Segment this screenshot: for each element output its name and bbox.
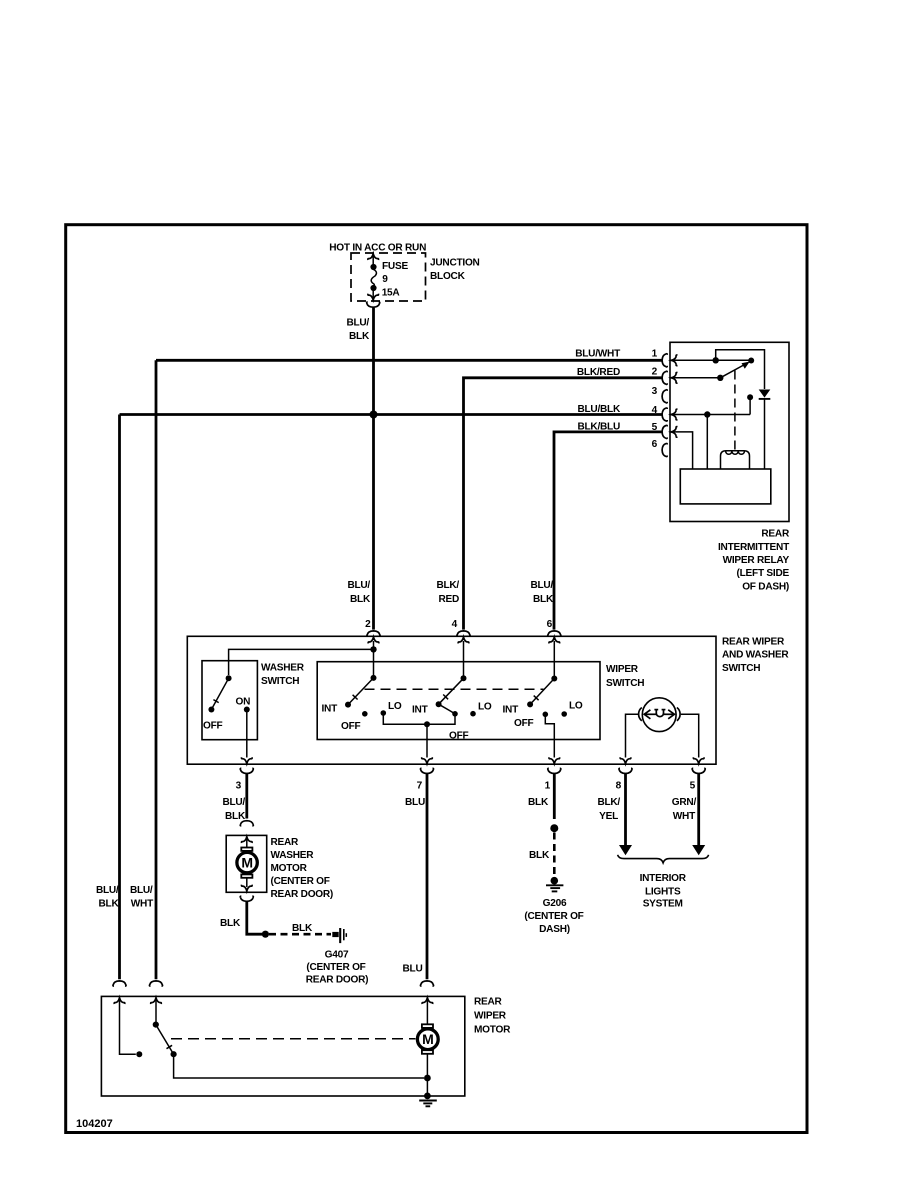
pole 3 OFF contact [543, 712, 549, 718]
pole 2 bridge INT to OFF [439, 704, 455, 714]
svg-text:15A: 15A [382, 288, 401, 299]
svg-text:3: 3 [652, 386, 658, 397]
relay internal wire pin5 [671, 432, 693, 469]
relay switch arm [720, 362, 750, 378]
wire BLK/RED horizontal to relay pin 2 [464, 378, 662, 630]
wire pin6 into wiper switch [553, 641, 555, 679]
svg-text:BLK: BLK [349, 331, 370, 342]
svg-text:WASHER: WASHER [271, 850, 315, 861]
wiper pole 3 arm [527, 676, 557, 708]
svg-text:FUSE: FUSE [382, 261, 408, 272]
svg-text:WASHER: WASHER [261, 663, 305, 674]
svg-text:LO: LO [569, 701, 583, 712]
svg-text:MOTOR: MOTOR [474, 1025, 511, 1036]
svg-text:OFF: OFF [449, 731, 469, 742]
washer motor M1 [237, 837, 257, 891]
svg-text:WIPER: WIPER [474, 1011, 507, 1022]
svg-text:BLK/: BLK/ [436, 580, 459, 591]
svg-text:(CENTER OF: (CENTER OF [524, 911, 583, 922]
relay pin 6 connector [662, 443, 667, 456]
svg-text:BLK: BLK [99, 899, 120, 910]
svg-text:REAR DOOR): REAR DOOR) [271, 889, 334, 900]
switch pin 2 connector [367, 631, 380, 636]
svg-text:SWITCH: SWITCH [722, 663, 760, 674]
wiper motor connector pin (BLU) [420, 981, 433, 986]
svg-text:BLK: BLK [529, 850, 550, 861]
wire BLK from washer motor [247, 901, 262, 934]
wire washer switch feed [229, 649, 374, 675]
svg-text:BLU/: BLU/ [346, 318, 369, 329]
svg-text:BLU/: BLU/ [222, 797, 245, 808]
svg-text:BLU/: BLU/ [347, 580, 370, 591]
svg-text:1: 1 [545, 781, 551, 792]
wiper switch box [317, 662, 600, 740]
svg-text:GRN/: GRN/ [672, 797, 697, 808]
wire BLU/WHT vertical left [155, 360, 158, 979]
wire BLK/BLU horizontal to relay pin 5 [554, 432, 662, 630]
svg-text:BLK: BLK [533, 594, 554, 605]
wire BLK dashed to G407 [269, 933, 331, 936]
ground G206 [546, 877, 563, 892]
wiper motor M2 [417, 999, 438, 1096]
svg-text:INTERMITTENT: INTERMITTENT [718, 542, 790, 553]
svg-text:BLK: BLK [292, 923, 313, 934]
switch pin 6 connector [548, 631, 561, 636]
relay internal block [680, 469, 771, 504]
svg-text:6: 6 [652, 439, 658, 450]
svg-text:WHT: WHT [673, 811, 696, 822]
relay pin 1 connector [662, 354, 667, 367]
relay pin 2 connector [662, 371, 667, 384]
svg-text:7: 7 [417, 781, 423, 792]
svg-text:MOTOR: MOTOR [271, 863, 308, 874]
svg-text:OFF: OFF [203, 721, 223, 732]
wiper motor connector pin (BLU/WHT) [149, 981, 162, 986]
relay diode [759, 390, 771, 470]
junction BLU/BLK [370, 411, 378, 419]
relay internal wire pin2 [671, 375, 724, 381]
svg-text:INT: INT [321, 704, 338, 715]
svg-text:9: 9 [382, 274, 388, 285]
svg-text:ON: ON [236, 697, 251, 708]
label REAR INTERMITTENT WIPER RELAY [718, 529, 790, 593]
pole 1 LO contact [381, 710, 387, 716]
wire BLU pin7 to wiper motor [426, 774, 429, 980]
relay coil [721, 451, 750, 469]
pole 2 LO contact [470, 711, 476, 717]
switch pin 1 connector [549, 757, 560, 763]
wire BLK pin1 [553, 774, 556, 819]
relay pin 5 connector [662, 425, 667, 438]
rear washer motor box [226, 835, 267, 892]
svg-text:AND WASHER: AND WASHER [722, 650, 789, 661]
junction BLK splice (washer) [262, 931, 269, 938]
illumination lamp [639, 698, 681, 732]
svg-text:YEL: YEL [599, 811, 618, 822]
svg-text:OF DASH): OF DASH) [742, 582, 789, 593]
junction motor return [424, 1075, 431, 1082]
svg-text:LIGHTS: LIGHTS [645, 887, 681, 898]
ground rear wiper motor [419, 1093, 437, 1107]
svg-text:REAR WIPER: REAR WIPER [722, 637, 785, 648]
svg-text:(LEFT SIDE: (LEFT SIDE [737, 568, 790, 579]
svg-text:WIPER RELAY: WIPER RELAY [723, 555, 790, 566]
washer motor bottom connector [240, 896, 253, 901]
switch pin 5 connector [693, 757, 704, 763]
svg-text:BLK: BLK [220, 918, 241, 929]
svg-text:5: 5 [690, 781, 696, 792]
label G206 (CENTER OF DASH) [524, 898, 583, 935]
svg-text:104207: 104207 [76, 1118, 113, 1130]
svg-text:BLOCK: BLOCK [430, 271, 466, 282]
svg-text:8: 8 [616, 781, 622, 792]
wire BLU/BLK horizontal to relay pin 4 [120, 413, 662, 416]
label REAR WASHER MOTOR (CENTER OF REAR DOOR) [271, 837, 334, 900]
svg-text:1: 1 [652, 349, 658, 360]
relay internal wire pin4 [671, 394, 753, 469]
wire GRN/WHT pin5 [697, 774, 700, 846]
svg-text:REAR: REAR [761, 529, 790, 540]
svg-text:BLK/: BLK/ [597, 797, 620, 808]
svg-text:BLU/: BLU/ [130, 885, 153, 896]
label REAR WIPER MOTOR [474, 997, 511, 1036]
svg-text:BLK: BLK [350, 594, 371, 605]
switch pin 8 connector [620, 757, 631, 763]
svg-text:3: 3 [236, 781, 242, 792]
switch pin 7 connector [422, 757, 433, 763]
svg-text:SWITCH: SWITCH [606, 678, 644, 689]
relay dashed actuation link [734, 371, 736, 451]
park switch arm [153, 999, 177, 1057]
svg-text:REAR: REAR [271, 837, 300, 848]
svg-text:BLK: BLK [225, 811, 246, 822]
wire pin2 into wiper switch [373, 641, 375, 678]
arrow to interior lights (right) [692, 845, 705, 855]
svg-text:2: 2 [365, 619, 371, 630]
washer motor connector [240, 821, 253, 826]
wire lamp right to pin 5 [681, 714, 699, 757]
washer switch arm [208, 675, 231, 712]
svg-text:WHT: WHT [131, 899, 154, 910]
svg-text:G407: G407 [325, 950, 349, 961]
svg-text:4: 4 [452, 619, 458, 630]
switch pin 4 connector [457, 631, 470, 636]
svg-text:M: M [241, 854, 252, 870]
svg-text:JUNCTION: JUNCTION [430, 258, 480, 269]
brace interior lights [618, 855, 709, 863]
relay U1 box (rear intermittent wiper relay) [670, 342, 789, 521]
wire BLU/BLK pin3 to washer motor [245, 774, 248, 819]
dashed motor link [171, 1038, 416, 1040]
svg-text:BLU/: BLU/ [530, 580, 553, 591]
wire park contact left [120, 999, 143, 1057]
svg-text:BLK/RED: BLK/RED [577, 367, 620, 378]
svg-text:BLU: BLU [403, 964, 423, 975]
svg-text:INT: INT [412, 704, 429, 715]
svg-text:2: 2 [652, 366, 658, 377]
svg-text:RED: RED [438, 594, 459, 605]
wire park arm to motor return [174, 1054, 424, 1078]
svg-text:LO: LO [478, 702, 492, 713]
svg-text:DASH): DASH) [539, 924, 570, 935]
label REAR WIPER AND WASHER SWITCH [722, 637, 789, 674]
junction BLK splice [550, 824, 558, 832]
wire BLK/YEL pin8 [624, 774, 627, 846]
wire BLU/WHT horizontal to relay pin 1 [156, 359, 662, 362]
wiper pole 1 arm [345, 675, 377, 708]
wire BLK dashed to G206 [553, 833, 556, 876]
relay pin 3 connector [662, 390, 667, 403]
svg-text:4: 4 [652, 405, 658, 416]
svg-text:HOT IN ACC OR RUN: HOT IN ACC OR RUN [329, 243, 426, 254]
svg-text:M: M [422, 1031, 433, 1047]
wiper switch gang dashed line [365, 688, 544, 690]
svg-text:INT: INT [502, 705, 519, 716]
svg-text:BLK: BLK [528, 797, 549, 808]
wire pin4 into wiper switch [463, 641, 465, 678]
svg-text:WIPER: WIPER [606, 664, 639, 675]
wire BLU/BLK vertical far left [118, 415, 121, 980]
svg-text:BLU/: BLU/ [96, 885, 119, 896]
ground G407 bolt [332, 928, 346, 943]
fuse F9 15A [368, 254, 379, 300]
relay internal wire pin1 to contact [671, 350, 765, 389]
wiper motor connector pin (BLU/BLK) [113, 981, 126, 986]
washer switch box [202, 661, 257, 740]
rear wiper motor box [101, 996, 464, 1096]
svg-text:BLU/BLK: BLU/BLK [577, 404, 621, 415]
connector below junction block [367, 302, 380, 307]
svg-text:(CENTER OF: (CENTER OF [271, 876, 330, 887]
junction block dashed box [351, 253, 426, 301]
pole 1 OFF contact [362, 711, 368, 717]
wire OFF3 to pin 1 [545, 714, 554, 757]
svg-text:BLU: BLU [405, 797, 425, 808]
svg-text:BLU/WHT: BLU/WHT [575, 349, 621, 360]
svg-text:BLK/BLU: BLK/BLU [577, 422, 620, 433]
svg-text:OFF: OFF [514, 718, 534, 729]
svg-text:LO: LO [388, 701, 402, 712]
wiper pole 2 arm [436, 675, 467, 707]
wire BLU/BLK from fuse down to switch pin 2 [372, 308, 375, 630]
label INTERIOR LIGHTS SYSTEM [640, 873, 687, 910]
svg-text:G206: G206 [543, 898, 567, 909]
svg-text:INTERIOR: INTERIOR [640, 873, 687, 884]
wiper motor pin arrows [114, 998, 125, 1004]
label G407 (CENTER OF REAR DOOR) [306, 950, 369, 986]
svg-text:6: 6 [547, 619, 553, 630]
svg-text:(CENTER OF: (CENTER OF [306, 962, 365, 973]
svg-text:REAR DOOR): REAR DOOR) [306, 975, 369, 986]
wire ON contact to pin 3 [246, 710, 248, 758]
switch pin 3 connector [242, 757, 253, 763]
svg-text:OFF: OFF [341, 721, 361, 732]
arrow to interior lights (left) [619, 845, 632, 855]
svg-text:SWITCH: SWITCH [261, 676, 299, 687]
svg-text:REAR: REAR [474, 997, 503, 1008]
relay pin 4 connector [662, 408, 667, 421]
wire LO1 to OFF2 with tap to pin 7 [383, 713, 455, 758]
border frame [66, 225, 807, 1133]
pole 3 LO contact [561, 711, 567, 717]
pole 2 OFF contact [452, 711, 458, 717]
washer ON contact [244, 707, 250, 713]
rear wiper and washer switch box [187, 636, 716, 764]
wire lamp left to pin 8 [626, 714, 639, 757]
junction to washer switch [370, 646, 376, 652]
svg-text:5: 5 [652, 422, 658, 433]
svg-text:SYSTEM: SYSTEM [643, 899, 683, 910]
